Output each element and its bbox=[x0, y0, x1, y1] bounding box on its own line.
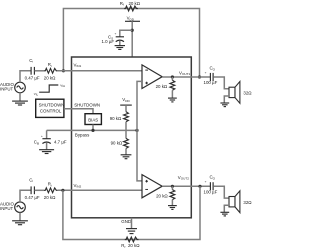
wire: bypass pin to CB bbox=[46, 130, 48, 138]
wire: source2 to Ci bbox=[20, 190, 31, 202]
node: ch1 input junction bbox=[62, 69, 65, 72]
svg-text:20 kΩ: 20 kΩ bbox=[156, 194, 168, 199]
svg-text:SHUTDOWN: SHUTDOWN bbox=[74, 102, 100, 107]
svg-text:20 kΩ: 20 kΩ bbox=[44, 75, 56, 80]
capacitor Ci ch2 0.47uF bbox=[30, 186, 32, 194]
node: bias junction bbox=[135, 129, 138, 132]
wire: bypass rail bbox=[47, 129, 137, 131]
svg-text:INPUT: INPUT bbox=[0, 206, 13, 211]
resistor Rf ch2 (bottom) bbox=[125, 237, 139, 242]
resistor 20k internal ch2 bbox=[171, 186, 173, 189]
svg-text:SHUTDOWN: SHUTDOWN bbox=[39, 103, 65, 108]
shutdown control box bbox=[36, 99, 64, 117]
svg-text:1.0 µF: 1.0 µF bbox=[102, 39, 115, 44]
svg-text:20 kΩ: 20 kΩ bbox=[156, 84, 168, 89]
op-amp U1A bbox=[142, 65, 162, 89]
wire: bias box to bypass rail bbox=[92, 125, 94, 131]
svg-text:CONTROL: CONTROL bbox=[40, 108, 62, 113]
resistor Ri ch2 20k bbox=[44, 188, 58, 193]
wire: speaker 2 to ground bbox=[224, 205, 229, 212]
bias box bbox=[85, 114, 101, 125]
ground (GND pin) bbox=[126, 228, 137, 230]
resistor 90k lower bbox=[125, 130, 127, 138]
svg-text:90 kΩ: 90 kΩ bbox=[110, 116, 122, 121]
wire: Ri2 to VIN2 pin bbox=[58, 189, 142, 191]
svg-text:100 µF: 100 µF bbox=[204, 80, 218, 85]
wire: GND pin to ground bbox=[131, 218, 133, 228]
svg-text:100 µF: 100 µF bbox=[204, 190, 218, 195]
capacitor Ci ch1 0.47uF bbox=[30, 67, 32, 75]
wire: ch1 feedback loop (input node up, across top, down to VOUT1) bbox=[63, 9, 199, 78]
shutdown step waveform bbox=[39, 85, 58, 92]
wire: Ci to Ri bbox=[35, 70, 44, 72]
svg-text:+: + bbox=[205, 70, 207, 74]
svg-text:INPUT: INPUT bbox=[0, 86, 13, 91]
wire: amp2 output to Co2 bbox=[162, 185, 210, 187]
node: VOUT1 junction (external) bbox=[198, 75, 201, 78]
node: VDD / CS junction bbox=[131, 29, 134, 32]
svg-text:BIAS: BIAS bbox=[88, 117, 98, 122]
resistor 20k internal ch1 bbox=[171, 77, 173, 80]
ground (20k ch1) bbox=[168, 97, 177, 99]
svg-text:32Ω: 32Ω bbox=[243, 200, 252, 205]
svg-text:GND: GND bbox=[121, 219, 131, 224]
svg-text:0.47 µF: 0.47 µF bbox=[25, 75, 40, 80]
wire: amp1 output to Co1 bbox=[162, 76, 210, 78]
wire: VDD rail down into IC bbox=[131, 21, 133, 57]
ground (CS) bbox=[115, 45, 125, 47]
wire: CS branch bbox=[120, 30, 132, 36]
ground (speaker 2) bbox=[220, 211, 229, 213]
ground (20k ch2) bbox=[168, 205, 177, 207]
svg-text:20 kΩ: 20 kΩ bbox=[44, 195, 56, 200]
svg-text:+: + bbox=[41, 134, 43, 138]
ground (source ch2) bbox=[19, 213, 21, 221]
audio source ch2 bbox=[15, 202, 26, 213]
svg-text:32Ω: 32Ω bbox=[243, 91, 252, 96]
resistor 90k upper bbox=[124, 112, 129, 122]
wire: speaker 1 to ground bbox=[224, 96, 229, 103]
wire: Ri to VIN1 pin bbox=[58, 70, 142, 72]
wire: bias rail to op-amp + inputs bbox=[137, 81, 142, 180]
node: ch2 input junction bbox=[61, 189, 64, 192]
audio source ch1 bbox=[15, 82, 26, 93]
svg-text:4.7 µF: 4.7 µF bbox=[54, 140, 67, 145]
svg-text:90 kΩ: 90 kΩ bbox=[111, 141, 123, 146]
ground (90k) bbox=[121, 154, 132, 156]
svg-text:+: + bbox=[115, 32, 117, 36]
resistor Rf ch1 (top) bbox=[124, 6, 138, 11]
speaker 1 bbox=[229, 87, 235, 97]
node: internal 20k tap ch1 bbox=[171, 75, 174, 78]
node: internal 20k tap ch2 bbox=[171, 185, 174, 188]
node: VOUT2 junction (external) bbox=[198, 185, 201, 188]
IC package outline bbox=[72, 57, 192, 218]
svg-text:Bypass: Bypass bbox=[75, 132, 90, 137]
svg-text:0.47 µF: 0.47 µF bbox=[25, 195, 40, 200]
wire: Co1 to speaker 1 bbox=[213, 77, 229, 89]
resistor Ri ch1 20k bbox=[44, 68, 58, 73]
speaker 2 bbox=[229, 197, 235, 207]
ground (speaker 1) bbox=[220, 102, 229, 104]
ground (CB) bbox=[39, 149, 54, 151]
wire: Ci2 to Ri2 bbox=[35, 189, 44, 191]
op-amp U1B bbox=[142, 175, 162, 198]
wire: source to Ci bbox=[20, 71, 31, 82]
wire: Co2 to speaker 2 bbox=[213, 186, 229, 198]
svg-text:+: + bbox=[205, 180, 207, 184]
ground (source ch1) bbox=[19, 93, 21, 101]
wire: ch2 feedback loop bbox=[63, 186, 200, 239]
capacitor CS 1.0uF bbox=[116, 36, 124, 38]
wire: shutdown to bias bbox=[64, 109, 93, 114]
node: bias box tap bbox=[91, 129, 94, 132]
